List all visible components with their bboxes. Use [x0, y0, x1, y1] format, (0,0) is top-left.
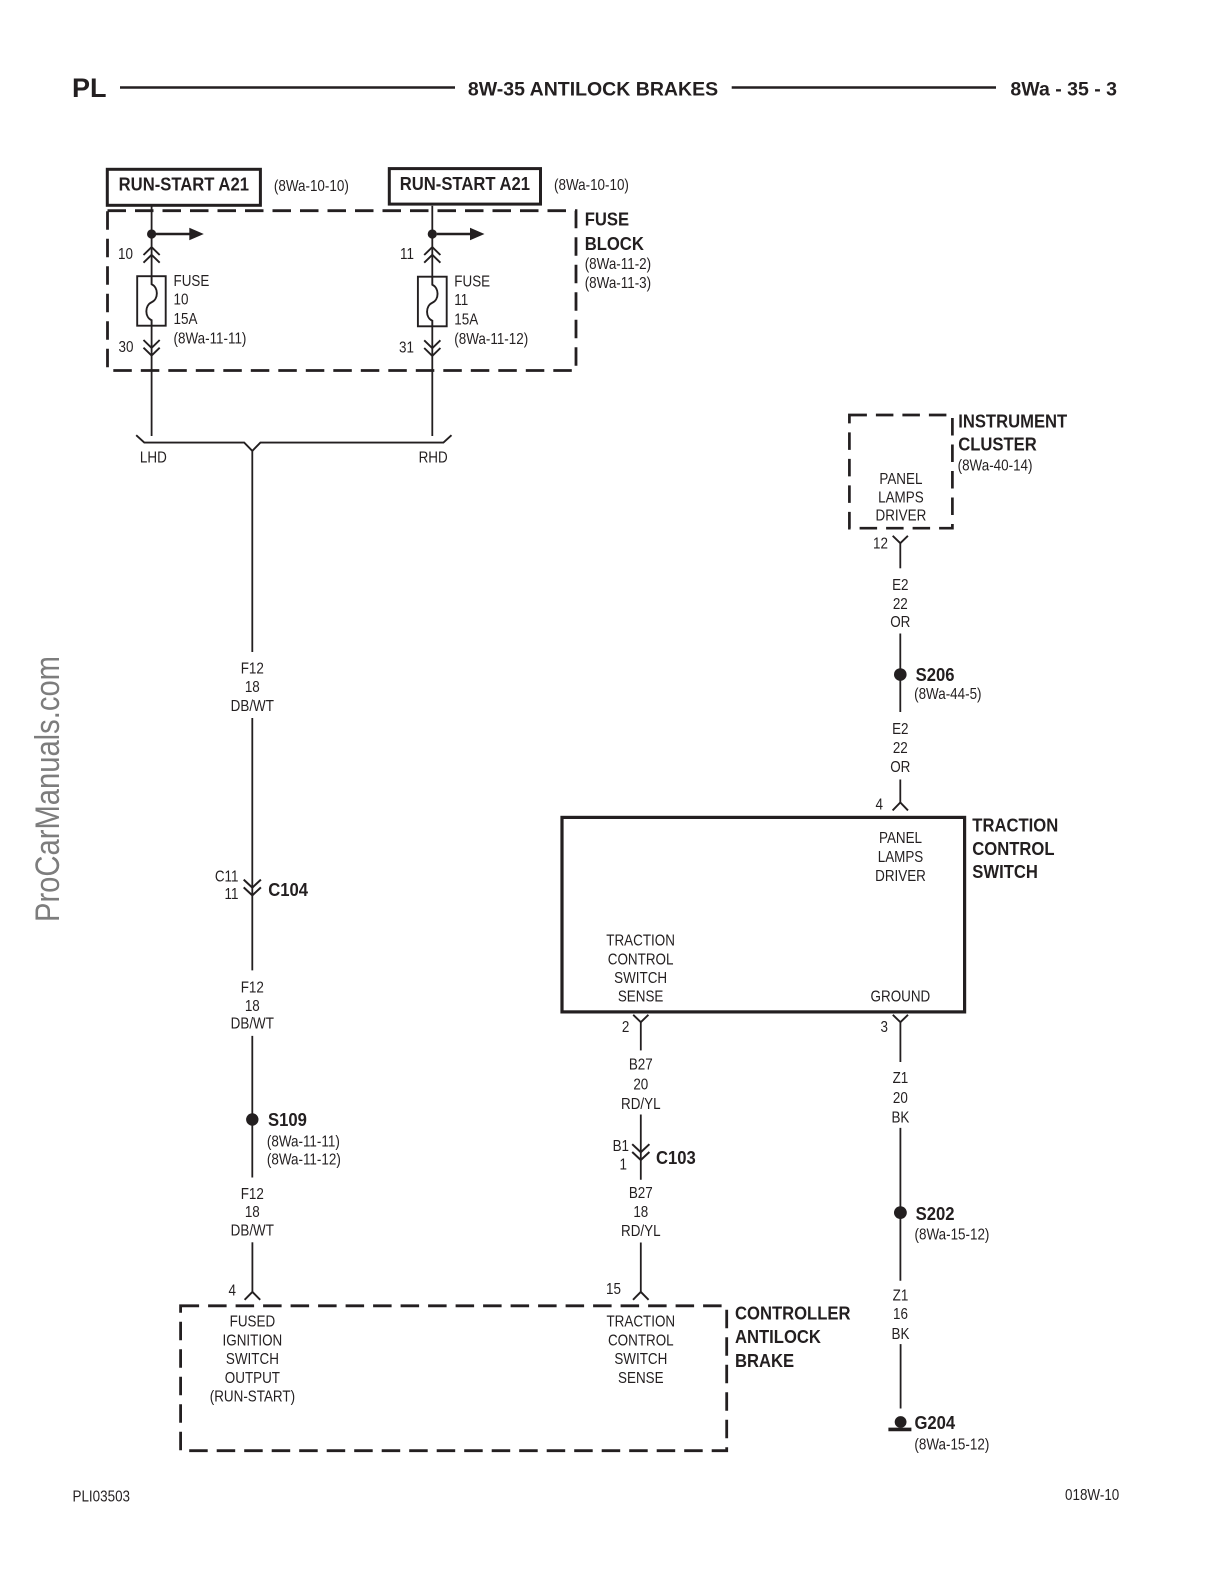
- connector chevrons pin 10: [144, 247, 160, 263]
- connector chevrons pin 11: [424, 247, 440, 263]
- svg-text:22: 22: [893, 596, 908, 613]
- svg-text:G204: G204: [915, 1412, 956, 1433]
- svg-text:3: 3: [881, 1019, 888, 1036]
- fuse F11 element curve: [427, 277, 438, 327]
- svg-text:SENSE: SENSE: [618, 1370, 664, 1387]
- svg-text:F12: F12: [241, 1186, 264, 1203]
- svg-text:CONTROL: CONTROL: [972, 838, 1054, 859]
- svg-text:(8Wa-15-12): (8Wa-15-12): [914, 1436, 989, 1453]
- svg-text:22: 22: [893, 740, 908, 757]
- wire E2 from pin 12: [899, 543, 901, 568]
- svg-text:SWITCH: SWITCH: [226, 1351, 279, 1368]
- wire label B27 18 RD/YL: [621, 1185, 661, 1241]
- fuse F10 element curve: [146, 276, 157, 326]
- svg-text:15: 15: [606, 1281, 621, 1298]
- wire from RUN-START A21 right down into fuse block: [431, 206, 433, 230]
- wire to connector C104: [251, 718, 253, 970]
- svg-text:SWITCH: SWITCH: [972, 861, 1038, 882]
- wire to connector C103: [640, 1115, 642, 1180]
- svg-text:(8Wa-10-10): (8Wa-10-10): [554, 177, 629, 194]
- svg-text:30: 30: [119, 339, 134, 356]
- svg-text:15A: 15A: [174, 311, 198, 328]
- header rule left: [120, 86, 455, 88]
- controller pin 15 fork: [633, 1292, 649, 1300]
- svg-text:Z1: Z1: [893, 1288, 909, 1305]
- instrument cluster title: [958, 411, 1067, 455]
- svg-text:018W-10: 018W-10: [1065, 1487, 1119, 1504]
- fuse block references (8Wa-11-2) (8Wa-11-3): [585, 256, 651, 293]
- wire into traction control switch pin 4: [899, 780, 901, 803]
- svg-text:SWITCH: SWITCH: [614, 970, 667, 987]
- svg-text:BK: BK: [891, 1109, 909, 1126]
- svg-text:20: 20: [633, 1077, 648, 1094]
- svg-text:(8Wa-40-14): (8Wa-40-14): [958, 457, 1033, 474]
- svg-text:S206: S206: [916, 664, 955, 685]
- svg-text:RUN-START A21: RUN-START A21: [119, 174, 249, 195]
- svg-text:PANEL: PANEL: [879, 471, 922, 488]
- svg-text:DRIVER: DRIVER: [875, 868, 926, 885]
- svg-text:BLOCK: BLOCK: [585, 233, 644, 254]
- svg-text:TRACTION: TRACTION: [606, 1314, 675, 1331]
- connector chevrons pin 31: [424, 340, 440, 356]
- svg-text:(8Wa-11-11): (8Wa-11-11): [267, 1134, 340, 1151]
- svg-text:C11: C11: [215, 869, 239, 886]
- fuse F10 value labels: [174, 273, 247, 348]
- svg-text:TRACTION: TRACTION: [606, 933, 675, 950]
- wire label E2 22 OR (upper): [890, 577, 910, 631]
- LHD/RHD merge bracket: [136, 435, 451, 451]
- wire to splice S202: [899, 1128, 901, 1281]
- svg-text:18: 18: [245, 998, 260, 1015]
- svg-text:LAMPS: LAMPS: [878, 849, 924, 866]
- svg-text:SENSE: SENSE: [618, 988, 664, 1005]
- connector C104 chevrons: [244, 880, 261, 896]
- svg-text:DRIVER: DRIVER: [876, 508, 927, 525]
- power feed box RUN-START A21 (left): [107, 169, 260, 205]
- power feed box RUN-START A21 (right): [389, 169, 540, 205]
- wire to splice S109: [251, 1036, 253, 1178]
- svg-text:TRACTION: TRACTION: [972, 815, 1058, 836]
- splice S206 dot: [894, 668, 907, 681]
- traction switch internal label TRACTION CONTROL SWITCH SENSE: [606, 933, 675, 1006]
- fuse block dashed outline: [108, 211, 577, 371]
- traction switch pin 3 fork: [893, 1015, 908, 1022]
- wire to splice S206: [899, 634, 901, 713]
- junction node on fuse 10 feed: [147, 229, 156, 238]
- svg-text:BK: BK: [892, 1326, 910, 1343]
- svg-text:2: 2: [622, 1019, 629, 1036]
- traction switch pin 2 fork: [633, 1015, 648, 1022]
- svg-text:(8Wa-11-12): (8Wa-11-12): [454, 331, 528, 348]
- svg-text:(RUN-START): (RUN-START): [210, 1389, 295, 1406]
- svg-text:(8Wa-11-11): (8Wa-11-11): [174, 331, 247, 348]
- svg-text:FUSED: FUSED: [230, 1314, 276, 1331]
- svg-text:10: 10: [118, 246, 133, 263]
- wire label F12 18 DB/WT (upper): [231, 661, 274, 716]
- svg-text:4: 4: [229, 1283, 236, 1300]
- svg-text:11: 11: [400, 246, 414, 263]
- svg-text:DB/WT: DB/WT: [231, 1016, 274, 1033]
- svg-text:S109: S109: [268, 1109, 307, 1130]
- fuse F11 body: [418, 277, 447, 327]
- instrument cluster dashed outline: [849, 415, 952, 528]
- wire dot to fuse 11: [431, 239, 433, 277]
- traction switch pin 4 fork: [893, 803, 908, 811]
- svg-text:CONTROL: CONTROL: [608, 951, 674, 968]
- svg-text:15A: 15A: [454, 312, 478, 329]
- svg-text:C104: C104: [268, 879, 308, 900]
- svg-text:SWITCH: SWITCH: [614, 1351, 667, 1368]
- svg-text:CONTROLLER: CONTROLLER: [735, 1303, 851, 1324]
- wire F12 from merge down: [251, 451, 253, 652]
- svg-text:FUSE: FUSE: [454, 274, 490, 291]
- wire label B27 20 RD/YL: [621, 1057, 661, 1114]
- svg-text:(8Wa-15-12): (8Wa-15-12): [915, 1227, 990, 1244]
- svg-text:4: 4: [876, 797, 883, 814]
- svg-text:11: 11: [454, 292, 468, 309]
- wire into controller pin 15: [640, 1243, 642, 1292]
- svg-text:(8Wa-11-2): (8Wa-11-2): [585, 256, 651, 273]
- connector C104 pin labels C11 / 11: [215, 869, 239, 904]
- svg-text:PANEL: PANEL: [879, 830, 922, 847]
- wire label F12 18 DB/WT (lower): [231, 1186, 274, 1240]
- svg-text:LHD: LHD: [140, 450, 167, 467]
- instrument cluster internal label PANEL LAMPS DRIVER: [876, 471, 927, 525]
- svg-text:DB/WT: DB/WT: [231, 698, 274, 715]
- traction control switch title: [972, 815, 1058, 883]
- svg-text:OUTPUT: OUTPUT: [225, 1370, 280, 1387]
- wire label Z1 16 BK: [892, 1288, 910, 1344]
- wire fuse 11 output: [431, 326, 433, 436]
- svg-text:(8Wa-11-12): (8Wa-11-12): [267, 1152, 341, 1169]
- arrow feed to other circuits (fuse 10): [156, 228, 204, 240]
- fuse F10 body: [137, 276, 166, 326]
- connector chevrons pin 30: [144, 340, 160, 356]
- svg-text:OR: OR: [890, 759, 910, 776]
- fuse block title FUSE BLOCK: [585, 209, 644, 254]
- svg-text:(8Wa-44-5): (8Wa-44-5): [914, 686, 981, 703]
- svg-text:18: 18: [245, 679, 260, 696]
- svg-text:E2: E2: [892, 721, 908, 738]
- svg-text:FUSE: FUSE: [174, 273, 210, 290]
- header rule right: [732, 86, 996, 88]
- fuse F11 value labels: [454, 274, 528, 349]
- wire label F12 18 DB/WT (middle): [231, 980, 274, 1033]
- svg-text:PL: PL: [72, 73, 107, 103]
- svg-text:DB/WT: DB/WT: [231, 1222, 274, 1239]
- controller pin 4 function label FUSED IGNITION SWITCH OUTPUT (RUN-START): [210, 1314, 295, 1407]
- svg-text:RD/YL: RD/YL: [621, 1223, 661, 1240]
- instrument cluster pin 12 fork: [893, 536, 908, 543]
- svg-text:FUSE: FUSE: [585, 209, 630, 230]
- svg-text:(8Wa-10-10): (8Wa-10-10): [274, 178, 349, 195]
- connector C103 pin labels B1 / 1: [613, 1138, 629, 1174]
- junction node on fuse 11 feed: [428, 229, 437, 238]
- wire dot to fuse 10: [151, 239, 153, 277]
- svg-text:18: 18: [245, 1204, 260, 1221]
- svg-text:C103: C103: [656, 1147, 696, 1168]
- svg-text:8Wa - 35 - 3: 8Wa - 35 - 3: [1010, 79, 1117, 101]
- svg-text:IGNITION: IGNITION: [223, 1332, 283, 1349]
- svg-text:ProCarManuals.com: ProCarManuals.com: [29, 656, 67, 922]
- wire B27 from pin 2: [640, 1022, 642, 1050]
- svg-text:8W-35 ANTILOCK BRAKES: 8W-35 ANTILOCK BRAKES: [468, 79, 718, 101]
- svg-text:F12: F12: [241, 980, 264, 997]
- splice S109 references: [267, 1134, 341, 1169]
- svg-text:B27: B27: [629, 1185, 653, 1202]
- svg-text:RHD: RHD: [419, 450, 448, 467]
- svg-text:CONTROL: CONTROL: [608, 1332, 674, 1349]
- svg-text:10: 10: [174, 292, 189, 309]
- svg-text:PLI03503: PLI03503: [73, 1489, 131, 1506]
- wire from RUN-START A21 left down into fuse block: [151, 207, 153, 230]
- svg-text:CLUSTER: CLUSTER: [958, 434, 1037, 455]
- svg-text:(8Wa-11-3): (8Wa-11-3): [585, 275, 651, 292]
- traction switch internal label PANEL LAMPS DRIVER: [875, 830, 926, 886]
- connector C103 chevrons: [632, 1144, 649, 1160]
- svg-text:12: 12: [873, 536, 888, 553]
- svg-text:E2: E2: [892, 577, 908, 594]
- svg-text:LAMPS: LAMPS: [878, 489, 924, 506]
- svg-text:11: 11: [225, 886, 239, 903]
- splice S109 dot: [246, 1113, 258, 1125]
- wire Z1 from pin 3: [899, 1022, 901, 1062]
- controller antilock brake dashed outline: [181, 1306, 727, 1451]
- wire into controller pin 4: [251, 1242, 253, 1292]
- svg-text:20: 20: [893, 1090, 908, 1107]
- svg-text:1: 1: [620, 1157, 627, 1174]
- traction control switch outline: [562, 817, 965, 1012]
- ground G204 symbol: [888, 1416, 911, 1429]
- arrow feed to other circuits (fuse 11): [437, 228, 485, 240]
- svg-text:RUN-START A21: RUN-START A21: [400, 173, 530, 194]
- svg-text:31: 31: [399, 339, 414, 356]
- svg-text:18: 18: [633, 1204, 648, 1221]
- svg-text:OR: OR: [890, 614, 910, 631]
- svg-text:16: 16: [893, 1306, 908, 1323]
- svg-text:BRAKE: BRAKE: [735, 1350, 794, 1371]
- svg-text:RD/YL: RD/YL: [621, 1096, 661, 1113]
- svg-text:Z1: Z1: [893, 1070, 909, 1087]
- svg-text:ANTILOCK: ANTILOCK: [735, 1326, 821, 1347]
- svg-text:B27: B27: [629, 1057, 653, 1074]
- svg-text:F12: F12: [241, 661, 264, 678]
- controller pin 15 function label TRACTION CONTROL SWITCH SENSE: [606, 1314, 675, 1388]
- controller title CONTROLLER ANTILOCK BRAKE: [735, 1303, 851, 1372]
- wire fuse 10 output: [151, 326, 153, 436]
- wire label Z1 20 BK: [891, 1070, 909, 1127]
- controller pin 4 fork: [245, 1292, 261, 1300]
- splice S202 dot: [894, 1206, 907, 1219]
- svg-text:INSTRUMENT: INSTRUMENT: [958, 411, 1067, 432]
- wire to ground G204: [900, 1344, 902, 1408]
- wire label E2 22 OR (lower): [890, 721, 910, 776]
- svg-text:GROUND: GROUND: [871, 988, 931, 1005]
- svg-text:B1: B1: [613, 1138, 629, 1155]
- svg-text:S202: S202: [916, 1203, 955, 1224]
